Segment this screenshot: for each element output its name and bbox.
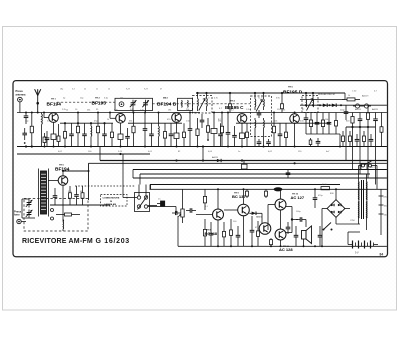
- dashed tuning box: [24, 199, 88, 232]
- switch contact a: [137, 196, 140, 199]
- resistor R35: [309, 134, 312, 147]
- title RICEVITORE AM-FM: [22, 238, 93, 245]
- label commutatore text: [103, 197, 120, 207]
- filter cap blob: [274, 187, 283, 191]
- capacitor C11: [200, 114, 205, 128]
- antenna jack J1: [18, 97, 23, 112]
- capacitor C37: [286, 170, 291, 179]
- wire output stage: [268, 189, 292, 246]
- resistor R39: [281, 100, 284, 113]
- svg-text:1n: 1n: [96, 89, 98, 91]
- svg-text:TR 11: TR 11: [283, 246, 290, 248]
- resistor R27: [81, 186, 84, 205]
- label presa fono: [14, 209, 22, 216]
- variable capacitor CV1: [130, 100, 137, 108]
- bridge rectifier PT1: [327, 200, 345, 218]
- coil L2: [90, 123, 93, 146]
- label row mid: [25, 120, 350, 122]
- svg-text:0,5 A: 0,5 A: [322, 183, 327, 186]
- svg-text:antenna: antenna: [16, 92, 27, 96]
- wire transformer taps: [359, 217, 367, 230]
- wire bridge connections: [322, 189, 360, 246]
- svg-text:3.9k: 3.9k: [276, 98, 280, 100]
- capacitor C8: [143, 113, 148, 147]
- resistor R2: [43, 133, 46, 147]
- capacitor C24: [74, 186, 79, 205]
- dashed AGC line: [57, 102, 250, 104]
- wire long feed drop: [88, 163, 90, 200]
- transformer lower windings: [359, 201, 367, 218]
- transistor TR1 BF194: [49, 113, 59, 123]
- svg-text:AA119: AA119: [372, 108, 379, 111]
- wire input top rail: [17, 112, 60, 114]
- label TR4: [230, 100, 236, 103]
- svg-text:3,3: 3,3: [72, 89, 75, 91]
- capacitor C39: [236, 226, 241, 246]
- svg-text:10k: 10k: [325, 119, 328, 121]
- wire pot top: [182, 189, 184, 203]
- svg-text:1k: 1k: [348, 95, 350, 97]
- svg-text:BF195: BF195: [92, 101, 107, 107]
- label row top1: [63, 98, 280, 100]
- mains switch S3: [323, 223, 333, 231]
- svg-text:TR 5: TR 5: [288, 87, 294, 89]
- resistor R18: [285, 123, 288, 146]
- capacitor C14: [232, 126, 237, 147]
- label rivelatore FM: [318, 93, 335, 96]
- svg-text:4.7k: 4.7k: [214, 98, 218, 100]
- wire TR7 wires: [196, 189, 218, 246]
- resistor R31: [270, 238, 273, 246]
- capacitor C27: [250, 210, 255, 246]
- resistor R43: [265, 189, 268, 198]
- resistor R9: [132, 113, 135, 147]
- label TR1: [51, 99, 57, 101]
- resistor R20: [321, 113, 324, 135]
- resistor R16: [240, 133, 245, 147]
- svg-text:9 V: 9 V: [355, 252, 359, 255]
- wire TR1 base: [44, 113, 49, 118]
- coil L3: [158, 113, 161, 147]
- wire bus y178: [133, 177, 387, 179]
- capacitor C2: [22, 128, 27, 144]
- transistor TR6 BF194: [58, 176, 68, 186]
- switch arm: [138, 196, 148, 210]
- transistor TR5 BF195D: [290, 114, 300, 124]
- svg-text:22k: 22k: [186, 109, 189, 111]
- svg-text:fono: fono: [14, 213, 20, 217]
- label BF195: [92, 101, 107, 107]
- resistor R32: [246, 123, 249, 146]
- svg-text:15k: 15k: [120, 98, 123, 100]
- label Presa antenna: [16, 89, 27, 96]
- wire TR5 emitter: [294, 123, 296, 146]
- wire bus y174: [140, 173, 370, 175]
- diode D2: [332, 103, 336, 107]
- diode D5 AA119: [212, 156, 221, 162]
- capacitor C12: [218, 123, 223, 146]
- gang pulley: [119, 102, 124, 107]
- resistor R17: [272, 113, 275, 147]
- capacitor C23: [53, 188, 58, 205]
- capacitor C17: [304, 113, 309, 126]
- transformer T4 core: [362, 180, 364, 219]
- resistor R37: [363, 131, 366, 147]
- svg-text:RICEVITORE AM-FM: RICEVITORE AM-FM: [22, 238, 93, 245]
- resistor R33: [111, 123, 114, 146]
- node y93 dots: [196, 92, 314, 94]
- svg-text:84: 84: [380, 253, 384, 257]
- coil L6a: [305, 97, 308, 107]
- label DG1: [257, 217, 263, 219]
- wire audio left drop: [177, 216, 179, 246]
- svg-text:47: 47: [160, 89, 162, 91]
- resistor R40: [342, 131, 345, 147]
- transistor TR7 BC148: [213, 209, 224, 220]
- svg-text:C.V.: C.V.: [140, 109, 144, 111]
- label BC137: [232, 194, 246, 199]
- resistor R22: [342, 98, 360, 101]
- transistor TR9 AC127: [275, 199, 286, 210]
- capacitor C36: [369, 134, 374, 147]
- resistor R29: [230, 219, 233, 246]
- transistor TR10 driver: [259, 223, 271, 235]
- capacitor C18: [315, 113, 320, 135]
- wire IF drop a: [202, 145, 204, 161]
- resistor R23: [351, 113, 354, 128]
- wire AM left links: [22, 199, 35, 218]
- svg-text:9-29: 9-29: [144, 89, 148, 91]
- label BF194: [47, 102, 62, 108]
- diode D3: [353, 104, 362, 108]
- capacitor C7: [125, 128, 130, 147]
- svg-text:2.2k: 2.2k: [62, 109, 66, 111]
- resistor R36: [349, 131, 352, 147]
- wire switch to pot: [160, 207, 181, 216]
- wire IF drop b: [241, 147, 243, 162]
- fuse F2: [321, 187, 330, 190]
- svg-text:18k: 18k: [168, 109, 171, 111]
- dashed mechanical link: [75, 185, 135, 187]
- transistor TR3 BF194B: [172, 113, 182, 123]
- band switch S1 box: [135, 193, 150, 212]
- coil L3a: [181, 100, 184, 112]
- wire bus y184: [150, 184, 340, 186]
- svg-text:8.2k: 8.2k: [114, 109, 118, 111]
- capacitor C4: [69, 123, 74, 146]
- svg-text:33k: 33k: [129, 120, 132, 122]
- svg-text:AC 127: AC 127: [291, 195, 305, 200]
- svg-text:5.6k: 5.6k: [300, 120, 304, 122]
- capacitor C38 electrolytic: [318, 220, 323, 247]
- resistor R24: [366, 105, 369, 127]
- resistor R45: [56, 213, 80, 216]
- ferrite rod antenna L7: [39, 169, 49, 217]
- capacitor C9: [169, 123, 174, 146]
- svg-text:9-29: 9-29: [126, 89, 130, 91]
- choke DR2: [361, 164, 375, 170]
- svg-text:AA119: AA119: [212, 156, 219, 159]
- wire y93 drops: [198, 93, 346, 100]
- wire right verticals: [346, 127, 376, 185]
- diode D1: [323, 103, 327, 107]
- node antenna junction: [36, 102, 39, 105]
- switch contact c: [137, 205, 140, 208]
- resistor R42: [246, 189, 249, 198]
- wire TR6 connections: [48, 171, 88, 198]
- resistor R19: [309, 113, 312, 135]
- wire audio top rail: [151, 185, 387, 190]
- resistor R28: [203, 189, 206, 246]
- title G 16/203: [96, 238, 130, 245]
- wire TR8 wires: [224, 189, 244, 246]
- resistor R8: [118, 134, 123, 147]
- capacitor C22: [373, 113, 378, 128]
- capacitor C10: [188, 113, 193, 147]
- label row top2: [66, 109, 345, 111]
- wire top rail y112 left: [60, 112, 200, 114]
- capacitor C25: [186, 208, 203, 213]
- svg-text:1.2k: 1.2k: [246, 109, 250, 111]
- coil L6b: [312, 97, 315, 107]
- switch contact b: [144, 196, 147, 199]
- wire long feed y163: [89, 162, 387, 164]
- transformer T4 secondary: [366, 174, 368, 201]
- transformer T4 primary: [358, 170, 360, 201]
- volume control blob: [148, 199, 165, 207]
- resistor R14: [206, 118, 209, 141]
- coil L5d: [263, 118, 266, 134]
- coil L4b: [206, 97, 209, 112]
- capacitor C32: [149, 123, 154, 146]
- svg-text:12: 12: [108, 89, 110, 91]
- tuning gang box: [115, 98, 153, 110]
- wire TR4 emitter: [241, 123, 243, 133]
- svg-text:BF195 C: BF195 C: [225, 105, 244, 110]
- svg-text:1.5k: 1.5k: [186, 120, 190, 122]
- coil L5a: [254, 97, 257, 111]
- resistor R13: [196, 118, 199, 147]
- IF transformer T2 dashed box: [251, 96, 272, 137]
- resistor R41: [223, 222, 226, 246]
- label box commutatore: [101, 195, 128, 207]
- capacitor C20: [344, 105, 349, 120]
- label TR6: [59, 165, 65, 167]
- wire demod rail y105: [300, 104, 387, 106]
- voltage selector: [379, 189, 384, 235]
- label BF194B: [157, 102, 177, 108]
- trimmer arrow T1: [199, 99, 205, 111]
- capacitor C28: [296, 217, 306, 227]
- capacitor C26: [209, 222, 214, 246]
- resistor R10: [163, 123, 166, 146]
- label 220: [384, 197, 388, 199]
- svg-text:1n: 1n: [238, 151, 240, 153]
- capacitor C34: [316, 134, 321, 147]
- trimmer arrow T2: [256, 100, 262, 112]
- label BF195C: [225, 105, 244, 110]
- wire switch feeds: [123, 154, 160, 207]
- svg-text:5.6k: 5.6k: [47, 120, 51, 122]
- wire bus y160 thick: [100, 160, 387, 162]
- variable capacitor CV2: [142, 100, 149, 108]
- wire bus y154: [17, 153, 150, 155]
- label battery 9V: [355, 252, 359, 255]
- label tiny c13: [219, 108, 223, 110]
- transistor TR4 BF195C: [237, 114, 247, 124]
- svg-text:68k: 68k: [282, 109, 285, 111]
- ground bus top section: [17, 146, 387, 148]
- wire battery feed: [348, 232, 360, 245]
- wire bus y169: [133, 169, 387, 171]
- wire supply rail segment B: [128, 122, 182, 124]
- label row under bus: [58, 151, 330, 153]
- node input gnd dots: [25, 145, 33, 147]
- svg-text:DG 1: DG 1: [257, 217, 263, 219]
- svg-text:G 16/203: G 16/203: [96, 238, 130, 245]
- wire driver to outputs: [256, 208, 272, 224]
- wire top rail y112 right: [212, 112, 387, 114]
- label TR9: [234, 192, 240, 194]
- svg-text:12k: 12k: [274, 120, 277, 122]
- capacitor C5: [82, 123, 87, 146]
- tiny value labels: [62, 95, 379, 229]
- coil L3b: [187, 100, 190, 107]
- label AC128: [279, 246, 293, 252]
- ceramic filter CF1: [242, 161, 248, 170]
- IF transformer T1 dashed box: [193, 96, 213, 114]
- capacitor C30 electrolytic: [313, 189, 318, 246]
- IF transformer T3 dashed box: [302, 96, 318, 113]
- wire TR6 collector down: [55, 198, 63, 221]
- transistor TR2 BF195: [116, 114, 126, 124]
- capacitor C1: [24, 113, 29, 125]
- resistor R6: [76, 113, 79, 147]
- wire speaker gnd: [303, 239, 305, 246]
- variable capacitor CV4: [26, 210, 33, 218]
- capacitor C15: [257, 110, 262, 118]
- wire T2 bottom: [255, 134, 264, 147]
- capacitor C33: [257, 139, 262, 147]
- label 110: [384, 215, 388, 217]
- node output junction: [291, 218, 298, 220]
- resistor R4: [57, 124, 60, 147]
- node dots right: [351, 126, 369, 128]
- svg-text:AA119: AA119: [355, 108, 362, 111]
- wire TR1 emitter: [53, 122, 55, 134]
- resistor R7: [96, 113, 99, 147]
- svg-text:TR 4: TR 4: [230, 100, 236, 103]
- resistor R21: [335, 113, 338, 135]
- wire AM gnd rail: [50, 204, 110, 206]
- capacitor C31: [266, 139, 271, 147]
- svg-text:1k: 1k: [66, 109, 68, 111]
- resistor R5: [63, 123, 66, 146]
- svg-text:TR 1: TR 1: [51, 99, 57, 101]
- svg-text:TR 10: TR 10: [292, 194, 299, 196]
- label BF194 AM: [55, 167, 70, 173]
- wire demod bottom rail: [306, 125, 340, 134]
- resistor R25: [380, 113, 383, 147]
- antenna ANT1: [35, 89, 41, 112]
- label TR3: [163, 98, 169, 100]
- svg-text:GAMMA AM: GAMMA AM: [104, 203, 116, 206]
- svg-text:22: 22: [84, 89, 86, 91]
- resistor R26: [69, 186, 72, 205]
- capacitor C29: [294, 226, 299, 246]
- wire bundle into switch: [139, 185, 146, 196]
- node dots rail1: [64, 122, 106, 124]
- coil L5c: [254, 118, 257, 134]
- wire supply rail segment C: [236, 122, 330, 124]
- wire TR2 emitter: [120, 123, 122, 134]
- svg-text:56k: 56k: [87, 109, 90, 111]
- label row top0: [60, 89, 162, 91]
- svg-text:AA 119: AA 119: [362, 95, 369, 98]
- resistor R15: [220, 113, 223, 147]
- coil L5b: [263, 97, 266, 111]
- svg-text:18p: 18p: [60, 89, 63, 91]
- phono jack J2: [17, 219, 26, 223]
- capacitor C19: [327, 113, 332, 135]
- wire right drop rail: [346, 126, 376, 128]
- wire CV links: [133, 108, 146, 113]
- oscillator box: [178, 98, 193, 110]
- resistor R12: [183, 123, 186, 146]
- wire audio bottom rail: [178, 245, 387, 247]
- capacitor C3: [45, 131, 50, 147]
- coil L4a: [197, 97, 200, 112]
- capacitor C40: [286, 218, 291, 234]
- schematic border frame: [13, 81, 388, 257]
- svg-text:COMMUTATORE: COMMUTATORE: [103, 197, 120, 200]
- capacitor C21: [358, 113, 363, 128]
- potentiometer P1: [179, 203, 185, 223]
- battery B1: [348, 241, 378, 249]
- trimmer arrow T3: [307, 99, 313, 111]
- label row topright: [352, 91, 378, 98]
- wire bundle corner verticals: [100, 147, 150, 191]
- wire demod drop: [339, 134, 341, 147]
- wire TR3 emitter: [176, 122, 178, 133]
- loudspeaker LS1: [302, 226, 312, 244]
- capacitor C6: [102, 123, 107, 146]
- wire supply rail segment A: [60, 122, 113, 124]
- wire top rail y93: [196, 92, 345, 94]
- svg-text:1 k: 1 k: [158, 199, 161, 201]
- wire mains right: [376, 166, 378, 190]
- diode DG1: [249, 212, 256, 216]
- resistor R1: [30, 113, 33, 147]
- diode D4: [362, 104, 371, 108]
- capacitor C16: [278, 123, 283, 146]
- transistor TR11 AC128: [275, 229, 286, 240]
- small box F1: [211, 113, 217, 147]
- svg-text:BF194 B: BF194 B: [157, 102, 177, 108]
- resistor R38: [229, 100, 232, 113]
- label BF195D: [283, 90, 303, 96]
- switch contact d: [144, 205, 147, 208]
- variable capacitor CV3: [26, 200, 33, 208]
- svg-text:BC 137: BC 137: [232, 194, 246, 199]
- coil L8: [62, 220, 65, 232]
- transistor TR8 BC137: [238, 204, 250, 216]
- svg-text:TR 2: TR 2: [95, 98, 101, 100]
- svg-text:1k: 1k: [107, 119, 109, 121]
- resistor R30: [257, 221, 260, 246]
- label AC127: [291, 194, 305, 200]
- svg-text:TR 6: TR 6: [59, 165, 65, 167]
